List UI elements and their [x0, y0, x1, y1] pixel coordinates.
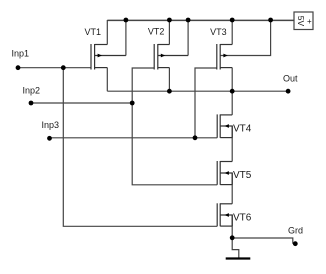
node Grd terminal — [293, 241, 298, 246]
junction rail / VT2 bulk — [186, 18, 191, 23]
svg-text:VT6: VT6 — [233, 213, 252, 224]
wire VT6 source riser down to ground node — [231, 215, 233, 238]
wire VT4 source riser down to VT5 drain — [231, 126, 233, 162]
wire Inp1 leg down to VT6 gate — [63, 68, 217, 227]
svg-text:VT4: VT4 — [233, 124, 252, 135]
svg-text:Inp2: Inp2 — [23, 86, 41, 96]
junction Inp1 branch to VT6 — [61, 65, 66, 70]
junction rail / VT2 source — [167, 18, 172, 23]
node Inp1 terminal — [16, 65, 21, 70]
wire VDD rail (+5V) — [107, 19, 294, 21]
wire Inp2 branch down to VT5 gate — [132, 103, 217, 185]
svg-text:VT2: VT2 — [148, 27, 165, 37]
transistor VT1 (PMOS) — [91, 44, 126, 70]
junction Inp3 branch to VT3 — [193, 135, 198, 140]
node Out terminal — [286, 89, 291, 94]
wire Inp1 to VT1 gate — [18, 67, 91, 69]
wire ground node jog to ground symbol — [232, 238, 239, 258]
wire VT2 source riser — [168, 20, 170, 45]
transistor VT3 (PMOS) — [217, 44, 232, 70]
transistor VT4 (NMOS) — [217, 114, 232, 137]
junction ground node — [230, 235, 235, 240]
svg-text:5V: 5V — [296, 16, 306, 27]
wire VT3 source riser — [231, 20, 233, 45]
wire VT2 bulk riser — [187, 20, 189, 56]
svg-text:Inp3: Inp3 — [42, 120, 60, 130]
wire VT1 drain riser — [106, 68, 108, 92]
wire VT1 bulk riser — [125, 20, 127, 56]
node Inp2 terminal — [29, 101, 34, 106]
wire Inp2 line — [31, 102, 132, 104]
wire VT2 drain riser — [168, 68, 170, 92]
svg-text:Grd: Grd — [288, 226, 303, 236]
junction Inp2 branch — [130, 101, 135, 106]
node Inp3 terminal — [47, 136, 52, 141]
wire Inp3 line to VT4 gate — [50, 137, 218, 139]
junction output / VT2 drain — [167, 89, 172, 94]
wire VT5 source riser down to VT6 drain — [231, 173, 233, 204]
svg-text:+: + — [307, 17, 312, 26]
junction output / VT3 VT4 drains — [230, 89, 235, 94]
junction rail / VT3 bulk — [268, 18, 273, 23]
svg-text:VT5: VT5 — [233, 170, 252, 181]
transistor VT2 (PMOS) — [154, 44, 188, 70]
svg-text:VT1: VT1 — [85, 27, 102, 37]
wire VT4 drain riser — [231, 91, 233, 115]
wire VT1 source riser — [106, 20, 108, 45]
wire ground node to Grd terminal — [232, 238, 293, 244]
transistor VT6 (NMOS) — [217, 203, 232, 226]
wire output line to Out — [107, 90, 288, 92]
wire VT3 drain riser — [231, 68, 233, 92]
wire Inp2 branch up to VT2 gate — [132, 68, 154, 103]
wire VT3 bulk wire and riser — [220, 20, 270, 56]
svg-text:Inp1: Inp1 — [12, 49, 30, 59]
svg-text:VT3: VT3 — [210, 27, 227, 37]
ground symbol — [226, 257, 251, 259]
junction rail / VT3 source — [230, 18, 235, 23]
battery V1 5V box — [294, 12, 313, 30]
svg-text:Out: Out — [283, 74, 298, 84]
junction rail / VT1 bulk — [124, 18, 129, 23]
wire Inp3 branch up to VT3 gate — [195, 68, 217, 138]
transistor VT5 (NMOS) — [217, 161, 232, 185]
